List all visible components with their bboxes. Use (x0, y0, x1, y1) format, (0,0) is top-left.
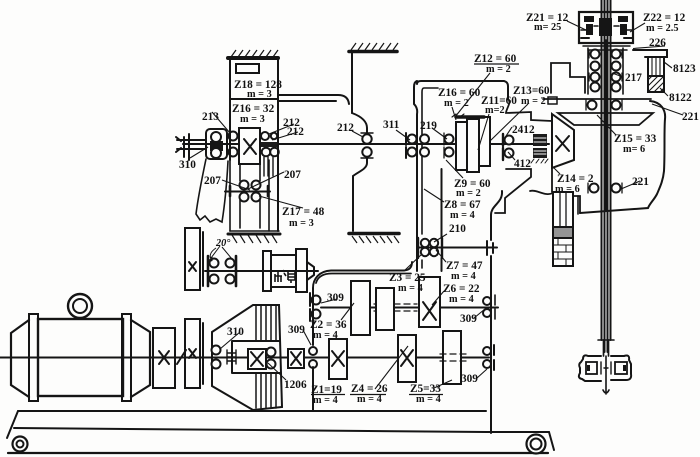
svg-text:217: 217 (625, 72, 642, 84)
svg-text:m = 2.5: m = 2.5 (646, 23, 678, 34)
shaft III gear cluster (421, 239, 429, 247)
crown gear Z15 (558, 113, 653, 125)
slide center notch (601, 362, 611, 374)
219 bearings (420, 135, 429, 144)
svg-text:m= 25: m= 25 (534, 22, 561, 33)
shaft I left bearing of gearbox (309, 347, 317, 355)
svg-text:m = 3: m = 3 (289, 218, 314, 229)
cone X box right (288, 349, 304, 368)
Z18 notch (236, 64, 259, 73)
gear Z6 box with clutch (419, 277, 440, 327)
spindle bearing stack (591, 50, 600, 59)
fraction bars (311, 64, 519, 395)
gear Z4 box (398, 335, 416, 382)
oil pump left plate (263, 251, 271, 291)
shaft II left bearings (312, 296, 321, 305)
motor body (38, 319, 123, 396)
hatch under 412 (531, 159, 548, 163)
Z18 column top hatch bar (228, 56, 278, 60)
hatch below left housing flange (352, 236, 399, 243)
svg-text:1206: 1206 (284, 379, 307, 391)
shaft IV line (183, 143, 549, 145)
bevel gear Z14 (552, 114, 574, 168)
svg-text:309: 309 (461, 373, 478, 385)
cone center bearings (267, 348, 276, 357)
svg-text:m = 3: m = 3 (247, 89, 272, 100)
spline blocks shaft IV end (533, 134, 547, 146)
left housing wall lower (353, 158, 367, 231)
bearings right of gear (261, 132, 269, 140)
svg-text:412: 412 (514, 158, 531, 170)
gear block Z11/Z12 (456, 122, 467, 170)
gear Z5 box (443, 331, 461, 384)
shaft II right bearings (483, 297, 491, 305)
head housing top edge (417, 81, 508, 99)
svg-text:m = 4: m = 4 (398, 283, 423, 294)
svg-text:m = 6: m = 6 (555, 184, 580, 195)
motor left end cap (11, 320, 29, 397)
shaft II line (321, 307, 498, 309)
rack hanger (577, 196, 579, 214)
shaft I joint slash (177, 350, 186, 364)
2412 bearings (505, 136, 514, 145)
svg-text:309: 309 (288, 324, 305, 336)
spindle mid bearings (588, 101, 597, 110)
column inner verticals (230, 160, 269, 231)
motor left flange (29, 314, 38, 401)
gear Z2 box (351, 281, 370, 335)
svg-text:309: 309 (327, 292, 344, 304)
feed gearbox top edge (313, 262, 412, 288)
belt pulley lower (185, 319, 200, 388)
torn flap (196, 159, 228, 222)
column bottom flange (230, 230, 279, 232)
head pocket step notch (495, 169, 531, 213)
base bed top line (18, 410, 486, 412)
step under box (583, 46, 630, 50)
left housing top hatch flange (349, 50, 397, 54)
head bottom hanger (530, 191, 580, 213)
212 bearing left wall (362, 134, 371, 143)
svg-text:8122: 8122 (669, 92, 692, 104)
svg-text:8123: 8123 (673, 63, 696, 75)
right bolt (618, 16, 628, 22)
worm center block (600, 19, 611, 35)
svg-text:212: 212 (287, 126, 304, 138)
base left bevel (7, 411, 18, 438)
hatch above Z18 bar (231, 50, 278, 57)
shaft II spline dashes (374, 304, 417, 311)
Z18 column walls (230, 58, 278, 231)
base bed plate second line (14, 428, 549, 432)
base bed bottom line (8, 452, 548, 454)
middle column outer wall (414, 81, 417, 271)
svg-text:Z17 = 48: Z17 = 48 (282, 206, 325, 218)
svg-text:212: 212 (337, 122, 354, 134)
cone X box left (248, 349, 266, 369)
oil pump body (271, 255, 296, 287)
slide left square (586, 362, 597, 374)
cone pulley window (232, 341, 280, 373)
left bolt (584, 16, 594, 22)
motor eye bolt (68, 294, 92, 318)
svg-text:210: 210 (449, 223, 466, 235)
oil pump right plate (296, 249, 307, 292)
rack hatch band (553, 227, 573, 238)
svg-text:221: 221 (632, 176, 649, 188)
slide right square (615, 362, 627, 374)
oil pump characters (275, 270, 295, 283)
base right bevel (549, 432, 554, 450)
svg-text:m = 4: m = 4 (357, 394, 382, 405)
311 bearings (408, 135, 417, 144)
shaft I horizontal line (0, 357, 489, 359)
8122 assembly top bar (633, 50, 667, 57)
head housing right outline (580, 101, 665, 213)
head interior small box (548, 97, 557, 104)
svg-text:m = 4: m = 4 (416, 394, 441, 405)
hatch below Z17 column flange (232, 235, 277, 243)
8122 vertical lined box (648, 57, 664, 76)
svg-text:m = 4: m = 4 (313, 395, 338, 406)
head inner boss wiggle (506, 99, 552, 121)
svg-text:m = 3: m = 3 (240, 114, 265, 125)
left housing bottom hatch flange (349, 232, 399, 236)
gear Z3 box (376, 288, 394, 330)
Z18 divider line (230, 98, 278, 100)
shaft IV clutch bearing box (206, 129, 227, 159)
spindle top feed box (579, 12, 633, 43)
base right foot roller (527, 435, 546, 454)
oil pump shaft (205, 270, 318, 272)
svg-text:20°: 20° (215, 238, 231, 249)
svg-text:207: 207 (204, 175, 221, 187)
rack to bevel link (551, 168, 553, 192)
left housing wall upper (352, 53, 367, 133)
svg-text:m=2: m=2 (485, 105, 505, 116)
bearings right of clutch (229, 132, 238, 141)
Z17 gear cluster (225, 191, 270, 193)
shaft I right bearings (483, 347, 491, 355)
gear Z1 box (329, 339, 347, 379)
shaft III end bracket (487, 241, 493, 255)
svg-text:m = 4: m = 4 (451, 271, 476, 282)
head pocket right S-curve (491, 191, 502, 240)
svg-text:m = 2: m = 2 (521, 96, 546, 107)
spindle bottom slide (579, 355, 631, 381)
spindle vertical lines (602, 0, 611, 352)
svg-text:m= 6: m= 6 (623, 144, 645, 155)
spindle tip (603, 356, 609, 394)
svg-text:2412: 2412 (512, 124, 535, 136)
shaft I coupling (153, 328, 175, 388)
shaft IV left stub flange (176, 134, 206, 160)
svg-text:310: 310 (179, 159, 196, 171)
hatching groups (231, 43, 399, 243)
svg-text:m = 4: m = 4 (449, 294, 474, 305)
middle column inner wall (422, 88, 438, 268)
motor right end cap (131, 320, 150, 397)
gear Z16-32 X box (239, 128, 260, 164)
cone shaft collar (227, 350, 236, 364)
cone pulley envelope (212, 305, 282, 410)
spindle quill walls (588, 48, 623, 94)
leader lines (190, 21, 683, 389)
shaft I spline dashes (440, 354, 468, 361)
svg-text:m = 2: m = 2 (456, 188, 481, 199)
cone pulley steps (256, 306, 276, 408)
svg-text:m = 4: m = 4 (450, 210, 475, 221)
head housing left steps above spindle (551, 63, 585, 93)
cone shaft left bearings (212, 346, 221, 355)
shelf lines to left housing (278, 95, 349, 104)
8122 hatched box (648, 76, 664, 92)
svg-text:m = 4: m = 4 (313, 330, 338, 341)
belt pulley upper (185, 228, 200, 290)
oil pump shaft bearings (210, 259, 219, 268)
hatch above left housing flange (351, 43, 398, 50)
svg-text:207: 207 (284, 169, 301, 181)
feed gearbox left wall (312, 288, 314, 411)
feed gearbox right wall (490, 256, 492, 433)
svg-text:311: 311 (383, 119, 400, 131)
head housing upper ledge right (543, 98, 651, 100)
rack body (553, 192, 573, 227)
svg-text:309: 309 (460, 313, 477, 325)
shaft III line (419, 247, 497, 249)
base left foot roller (13, 437, 28, 452)
spindle lower bearings (590, 184, 599, 193)
svg-text:221: 221 (682, 111, 699, 123)
spindle collar tick (598, 339, 614, 341)
oil pump tip (307, 262, 314, 280)
shaft III boss right wall (441, 169, 443, 271)
rack brick body (553, 238, 573, 266)
motor right flange (122, 314, 131, 401)
